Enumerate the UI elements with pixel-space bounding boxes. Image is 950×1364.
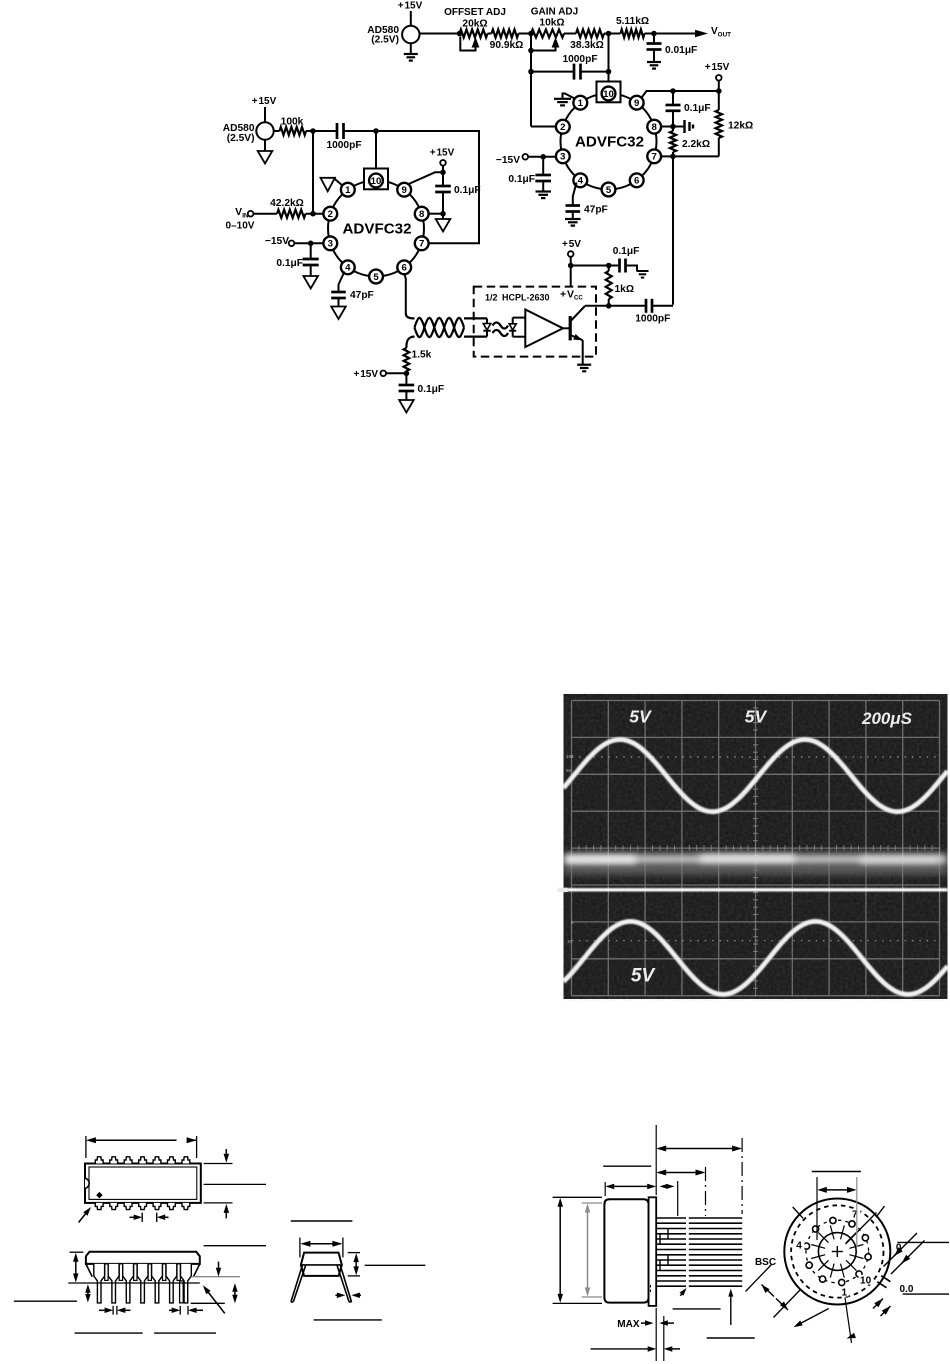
ground (C10, triangle): [331, 307, 346, 320]
node B (90.9k / gain pot): [528, 31, 534, 37]
dotted reference lines: [572, 756, 940, 758]
amplifier A1 (opto output): [525, 310, 563, 348]
wire U3 pin6 down to transformer: [405, 274, 406, 313]
DIP package top view body: [85, 1164, 201, 1203]
photo grain: [564, 694, 948, 999]
DIP top-view pins (top row): [95, 1157, 103, 1164]
label lines right: [897, 1241, 949, 1243]
node U (1k top / 0.1uF): [606, 263, 612, 269]
wire U2 pin9 to +15V rail: [642, 91, 720, 98]
lead diameter dimension bottom (TO-100): [663, 1316, 665, 1361]
wire node E down to U2 pin 2: [530, 72, 532, 127]
label lines (TO-100 side): [603, 1165, 651, 1167]
tab width dimension lines: [884, 1233, 918, 1267]
frequency band (V/F output, unresolved): [564, 854, 948, 865]
node D (5.11k / 0.01uF / VOUT): [651, 31, 657, 37]
ground (0.01uF): [647, 61, 661, 63]
ground (C8, triangle): [303, 276, 318, 289]
wire node C to node F to pin10: [608, 34, 610, 72]
svg-text:1: 1: [842, 1288, 848, 1299]
node S (collector / 1k / 1000pF): [606, 303, 612, 309]
wire U2 pin7 right to 12k: [661, 155, 719, 157]
DIP top-view pins (bottom row): [95, 1203, 103, 1210]
node L (100k / 1000pF / 42.2k feed): [310, 128, 316, 134]
capacitor C1 0.01uF: [653, 34, 655, 44]
ground (C3): [536, 190, 552, 192]
node G (-15V / 0.1uF): [540, 154, 546, 160]
svg-text:10: 10: [860, 1276, 872, 1287]
capacitor C12 0.1uF (bottom bypass): [405, 373, 407, 385]
can diameter dimension horizontal (TO-100): [604, 1182, 606, 1196]
resistor R4 38.3k: [564, 33, 576, 35]
tab length dimension arrows: [874, 1299, 883, 1308]
DIP side view leads with shoulders: [94, 1264, 105, 1303]
label line (row spacing): [204, 1245, 266, 1247]
lead length dimension (TO-100): [659, 1148, 739, 1150]
bottom-left leader: [797, 1309, 829, 1326]
TO-100 reference lines vertical: [655, 1125, 657, 1195]
pin 1 leader: [845, 1298, 852, 1344]
ground (U2 pin1): [563, 94, 575, 99]
tab on can: [877, 1282, 886, 1288]
DIP pin1 leader arrow: [79, 1210, 90, 1223]
seating plane line: [68, 1282, 200, 1284]
TO-100 leads (side view): [656, 1217, 686, 1219]
TO-100 side view can body: [604, 1199, 648, 1302]
node R (+15V / 1.5k / 0.1uF): [404, 371, 410, 377]
graticule grid: [571, 701, 573, 996]
resistor R10 1.5k: [405, 347, 407, 348]
svg-text:4: 4: [796, 1241, 802, 1252]
pin number labels: [849, 1209, 860, 1219]
DIP pin pitch dimension: [130, 1216, 141, 1218]
node E (1000pF left): [528, 69, 534, 75]
lead group leaders: [680, 1290, 685, 1296]
end view left leg: [291, 1265, 306, 1302]
ground (AD580 top): [410, 43, 412, 54]
node P (+15V / 0.1uF / pin9): [440, 170, 446, 176]
inner circle leader: [846, 1213, 877, 1245]
ground (node Q, triangle): [442, 214, 444, 219]
wire U2 pin8 to node J: [661, 126, 673, 128]
graticule percent markers: [566, 754, 574, 944]
node M (1000pF right / feedback): [373, 128, 379, 134]
LED D1 (input): [486, 318, 488, 323]
resistor R7 12k: [718, 91, 720, 110]
node T (+5V): [568, 263, 574, 269]
ground (C4): [565, 218, 581, 220]
wire feedback node M to U3 pin7: [376, 131, 479, 243]
node Q (pin8 / ground): [440, 211, 446, 217]
TO-100 inner circle with ticks: [818, 1233, 856, 1271]
body height dimension: [70, 1251, 84, 1253]
optocoupler U5 1/2 HCPL-2630 dashed box: [474, 287, 596, 357]
converter U3 ADVFC32 (input section): [328, 181, 424, 277]
wire node B down to 1000pF row: [530, 51, 532, 72]
end view lead spread dimension: [335, 1294, 342, 1296]
ground (U3 pin1, triangle): [335, 178, 343, 186]
wire U3 pin9 to node P: [408, 172, 444, 184]
pin 1 marker diamond: [96, 1192, 103, 1199]
TO-100 bottom view can outline: [784, 1199, 890, 1305]
cap height dimension gray (TO-100): [582, 1202, 602, 1204]
node C (38.3k / 5.11k): [606, 31, 612, 37]
wire +5V to 1k: [571, 265, 609, 267]
wire gain wiper loop: [531, 44, 556, 51]
TO-100 center cross: [832, 1251, 843, 1253]
capacitor C11 0.1uF (U3 +15V bypass): [442, 172, 444, 186]
resistor R2 90.9k: [492, 30, 519, 38]
end view label line bottom: [314, 1319, 382, 1321]
wire twisted pair to optocoupler LED: [464, 317, 487, 319]
oscilloscope photograph background: [564, 694, 948, 999]
DIP right-side dimension lines: [204, 1163, 233, 1165]
svg-text:MAX: MAX: [617, 1319, 640, 1330]
wire reference output to offset pot: [420, 33, 460, 35]
wire to VOUT with arrow: [654, 33, 698, 35]
baseline trace (recovered signal reference): [560, 888, 948, 891]
pin 1 index notch: [85, 1178, 89, 1188]
label line (top of bottom view): [812, 1171, 861, 1173]
lead partial dimension (TO-100): [659, 1172, 703, 1174]
wire U3 pin8 to node Q: [429, 213, 444, 215]
ground (C12, triangle): [399, 400, 414, 413]
TO-100 flange: [649, 1197, 657, 1306]
resistor R6 2.2k: [670, 131, 676, 152]
TO-100 bolt circle dashed: [806, 1220, 869, 1283]
wire node K down to 1000pF (C9) row: [672, 156, 674, 304]
end view width dimension: [299, 1238, 301, 1258]
node F (1000pF right): [606, 69, 612, 75]
wire Q1 collector to node S: [584, 305, 586, 306]
svg-text:0: 0: [896, 1243, 902, 1254]
svg-text:0.0: 0.0: [900, 1284, 914, 1295]
node K (pin7 junction): [670, 154, 676, 160]
lead width dimensions: [99, 1309, 110, 1311]
wire +5V to Vcc (box): [570, 266, 572, 288]
end view height dimension: [348, 1252, 360, 1254]
wire U2 pin2 to node E: [531, 126, 556, 128]
ground (U4, triangle): [264, 140, 266, 151]
lower sine waveform (recovered output): [564, 921, 948, 994]
right standoff dimensions: [192, 1276, 240, 1278]
capacitor C10 47pF (U3 pin4): [339, 272, 345, 285]
baseline notch crossing photo border: [558, 888, 568, 892]
wire node M to U3 pin10 tab: [375, 131, 377, 169]
voltage reference U4 AD580 (2.5V) left: [256, 122, 273, 139]
capacitor C5 0.1uF (U2 +15V bypass): [672, 91, 674, 105]
capacitor C4 47pF (U2 pin4): [573, 183, 577, 197]
transistor Q1 (opto output): [563, 327, 570, 329]
node N (42.2k / vertical from node L): [310, 211, 316, 217]
circle index ticks: [793, 1207, 803, 1218]
photodiode D2: [512, 318, 514, 337]
voltage reference U1 AD580 (2.5V): [402, 26, 419, 43]
node J (pin8 junction): [670, 124, 676, 130]
DIP side view back-row pins: [105, 1264, 108, 1281]
upper sine waveform (input): [564, 740, 948, 812]
label lines (DIP side): [75, 1332, 143, 1334]
wire C9 to U2 pin7 node: [672, 305, 674, 306]
tab width dimension arrows: [894, 1247, 903, 1256]
node A (ref / offset pot): [457, 31, 463, 37]
end view label line: [291, 1220, 353, 1222]
DIP side view body: [86, 1252, 200, 1264]
svg-text:BSC: BSC: [755, 1257, 776, 1268]
resistor R11 1k: [606, 271, 612, 299]
can height dimension (TO-100): [553, 1196, 602, 1198]
pin circle diameter dimension (top): [816, 1177, 818, 1240]
converter U2 ADVFC32 (output section): [561, 94, 657, 190]
TO-100 pin circles: [862, 1235, 868, 1241]
lead length dimension: [14, 1300, 77, 1302]
capacitor C6 (pin8 trim stub): [673, 126, 685, 128]
ground (Q1 emitter): [577, 364, 591, 366]
end view right leg: [337, 1265, 352, 1302]
node H (0.1uF top): [670, 88, 676, 94]
twisted pair T1 (pulse coupling): [406, 313, 415, 318]
TO-100 dashed circle: [791, 1205, 883, 1297]
wire Q1 emitter to ground: [582, 340, 584, 365]
end view body: [301, 1253, 342, 1276]
isolation barrier squiggle: [493, 323, 509, 329]
node O (-15V / 0.1uF): [308, 241, 314, 247]
ground (C13): [637, 270, 649, 272]
DIP length dimension: [85, 1136, 87, 1158]
node I (+15V / 12k): [716, 88, 722, 94]
seating plane leader: [205, 1288, 225, 1314]
